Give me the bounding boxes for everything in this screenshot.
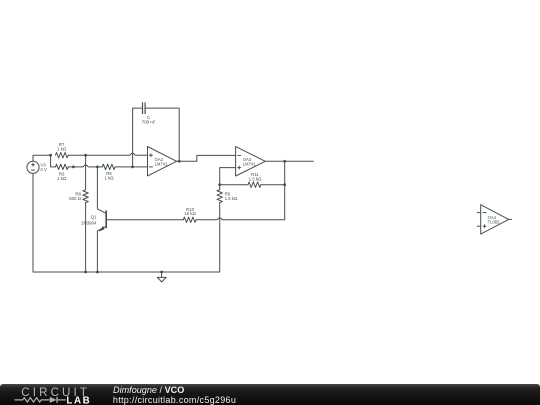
CircuitLab logo wordmark — [21, 386, 90, 399]
voltage source V3 — [27, 161, 47, 173]
svg-text:1.5 kΩ: 1.5 kΩ — [225, 196, 239, 201]
junction R8 top — [84, 154, 87, 157]
wire A to R6 — [51, 155, 56, 167]
op-amp OA4 TL082 — [477, 205, 512, 234]
resistor R5 — [102, 164, 115, 180]
wire R5 to OA2 -in — [115, 166, 147, 168]
wire R8 to rail — [85, 203, 87, 272]
wire to R8 — [85, 155, 87, 190]
svg-text:1.5 kΩ: 1.5 kΩ — [249, 177, 263, 182]
svg-text:http://circuitlab.com/c5g296u: http://circuitlab.com/c5g296u — [113, 395, 236, 405]
svg-text:500 Ω: 500 Ω — [69, 196, 82, 201]
junction OA3 out — [283, 160, 286, 163]
svg-text:1 kΩ: 1 kΩ — [104, 176, 114, 181]
wire R10 to base — [106, 219, 183, 221]
wire V3 top — [33, 155, 51, 161]
wire R11 left — [220, 184, 248, 186]
transistor Q1 2N3904 — [81, 167, 106, 272]
svg-text:2N3904: 2N3904 — [81, 220, 97, 225]
svg-text:LM741: LM741 — [155, 161, 168, 166]
svg-text:LM741: LM741 — [243, 162, 256, 167]
wire R9 top — [219, 185, 221, 190]
CircuitLab logo resistor-diode glyph — [14, 397, 65, 403]
node A junction — [49, 154, 52, 157]
op-amp OA2 LM741 — [148, 147, 177, 176]
svg-text:3 V: 3 V — [40, 167, 47, 172]
junction emitter rail — [96, 271, 99, 274]
junction OA2 out — [178, 160, 181, 163]
svg-text:LAB: LAB — [66, 395, 91, 405]
junction R6 right — [72, 166, 75, 169]
wire R11 right — [261, 184, 285, 186]
junction R11 left — [218, 183, 221, 186]
ground — [157, 271, 166, 282]
wire hop over R8 line — [83, 165, 88, 167]
resistor R8 — [69, 190, 88, 203]
svg-text:Q1: Q1 — [91, 215, 97, 220]
CircuitLab logo LAB text — [66, 395, 91, 405]
junction C to -in — [131, 166, 134, 169]
svg-text:Dimfougne / VCO: Dimfougne / VCO — [113, 385, 184, 395]
svg-text:1 kΩ: 1 kΩ — [57, 176, 67, 181]
junction collector node — [96, 166, 99, 169]
junction R8 rail — [84, 271, 87, 274]
resistor R10 — [183, 207, 196, 223]
wire OA3 out — [265, 160, 313, 162]
wire hop over R9 line — [217, 218, 222, 220]
wire out to R10 — [196, 161, 285, 220]
wire hop over C line — [130, 153, 135, 155]
resistor R6 — [55, 164, 68, 181]
resistor R11 — [248, 172, 262, 187]
wire C right leg — [145, 108, 179, 161]
wire OA2 out to OA3 — [177, 155, 236, 161]
footer url — [113, 395, 236, 405]
wire R7 to OA2 +in — [68, 154, 147, 156]
svg-text:1 kΩ: 1 kΩ — [57, 146, 67, 151]
resistor R9 — [217, 190, 238, 203]
wire OA3 +in — [220, 168, 236, 185]
svg-text:16 kΩ: 16 kΩ — [184, 211, 196, 216]
wire C left leg — [133, 108, 143, 167]
resistor R7 — [55, 142, 68, 158]
op-amp OA3 LM741 — [236, 147, 266, 176]
capacitor C — [142, 102, 156, 124]
svg-text:700 nF: 700 nF — [142, 120, 156, 125]
wire R6 to R5 — [68, 166, 102, 168]
wire R9 to rail — [162, 203, 220, 273]
wire V3 bottom — [33, 173, 162, 272]
footer title Dimfougne / VCO — [113, 385, 184, 395]
junction R11 right — [283, 183, 286, 186]
svg-text:TL082: TL082 — [488, 219, 501, 224]
